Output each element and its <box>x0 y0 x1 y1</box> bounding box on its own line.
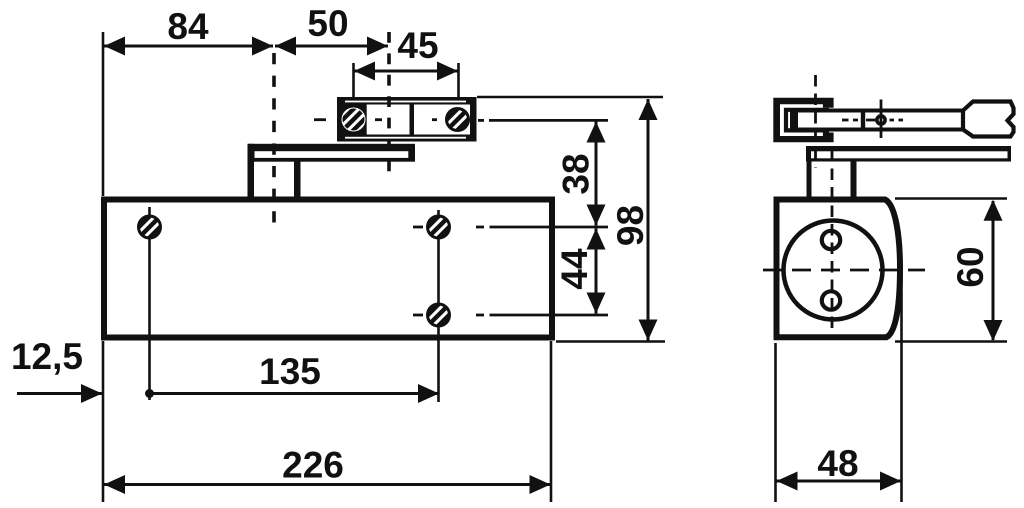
svg-text:44: 44 <box>554 248 595 290</box>
svg-text:48: 48 <box>817 443 858 484</box>
svg-text:45: 45 <box>397 25 438 66</box>
svg-text:226: 226 <box>282 445 344 486</box>
svg-text:98: 98 <box>610 205 651 246</box>
svg-text:50: 50 <box>307 3 348 44</box>
svg-text:38: 38 <box>556 153 597 194</box>
svg-text:84: 84 <box>167 6 209 47</box>
svg-text:60: 60 <box>950 246 991 287</box>
svg-text:12,5: 12,5 <box>11 336 83 377</box>
svg-text:135: 135 <box>259 351 321 392</box>
